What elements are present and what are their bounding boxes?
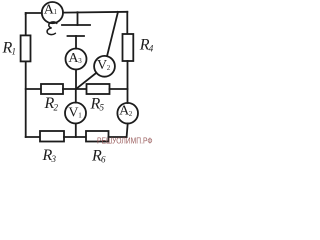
- svg-text:2: 2: [129, 110, 133, 118]
- svg-text:5: 5: [100, 103, 105, 113]
- resistor R1: [21, 35, 31, 61]
- svg-text:РЕШУОЛИМП.РФ: РЕШУОЛИМП.РФ: [97, 135, 153, 145]
- wire middle bus R2 to junction to R5: [63, 88, 87, 90]
- voltmeter V2: [94, 56, 115, 77]
- svg-text:V: V: [97, 58, 107, 73]
- resistor R3: [40, 131, 64, 142]
- svg-text:6: 6: [101, 155, 106, 165]
- resistor R2: [41, 84, 63, 94]
- svg-text:1: 1: [54, 8, 58, 16]
- svg-text:2: 2: [107, 64, 111, 72]
- wire battery top lead: [77, 12, 79, 25]
- wire middle bus left (left wire to R2): [26, 88, 41, 90]
- wire top-right vertical (corner to R4): [126, 12, 128, 34]
- wire bottom bus right (R6 to bottom-right corner): [109, 136, 127, 138]
- battery EMF long plate: [62, 24, 90, 26]
- wire diagonal from top wire to V2: [107, 12, 118, 56]
- label EMF script-E: [47, 22, 57, 35]
- voltmeter V1: [65, 103, 86, 124]
- ammeter A1: [42, 2, 63, 23]
- wire A3 to middle-bus junction: [75, 70, 77, 90]
- wire R4 to A2 (passes middle-bus tee): [127, 61, 129, 103]
- wire V1 top lead from junction: [75, 89, 77, 103]
- wire bottom bus R3 to R6: [64, 136, 86, 138]
- wire left side lower (R1 to bottom-left corner): [25, 61, 27, 137]
- wire left side upper (top corner to R1): [25, 13, 27, 35]
- wire top from A1 to top-right corner: [63, 11, 127, 14]
- wire bottom bus left (corner to R3): [26, 136, 40, 138]
- svg-text:2: 2: [54, 102, 59, 112]
- wire diagonal from V2 to middle-bus junction: [76, 73, 96, 89]
- svg-text:3: 3: [51, 154, 57, 164]
- svg-text:1: 1: [12, 47, 17, 57]
- resistor R5: [87, 84, 110, 94]
- battery EMF short plate: [68, 35, 85, 37]
- svg-text:4: 4: [149, 44, 153, 54]
- resistor R4: [123, 34, 134, 61]
- resistor R6: [86, 131, 109, 142]
- wire A2 to bottom bus: [127, 124, 128, 138]
- wire battery bottom lead to A3: [75, 36, 77, 49]
- wire middle bus right (R5 to R4 branch tee): [110, 88, 128, 90]
- svg-text:1: 1: [78, 112, 82, 120]
- ammeter A2: [117, 103, 138, 124]
- svg-text:3: 3: [78, 57, 82, 65]
- wire V1 bottom lead to bottom bus: [75, 124, 77, 138]
- svg-text:V: V: [68, 105, 78, 120]
- ammeter A3: [66, 49, 87, 70]
- wire top-left segment to ammeter A1: [26, 13, 42, 14]
